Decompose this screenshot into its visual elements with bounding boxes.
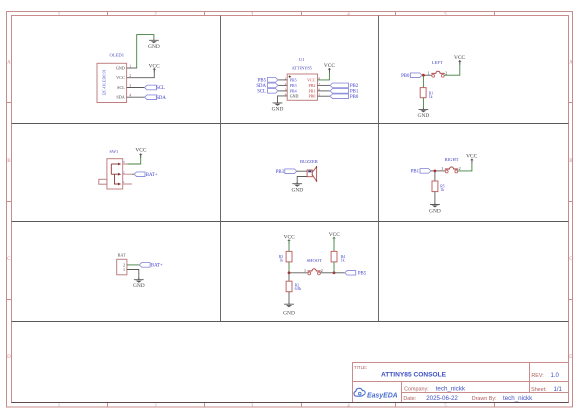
svg-text:TITLE:: TITLE: xyxy=(354,365,367,370)
svg-text:VCC: VCC xyxy=(324,63,335,69)
svg-text:1.0: 1.0 xyxy=(551,373,560,379)
power VCC at U1 xyxy=(328,68,331,73)
svg-text:PB2: PB2 xyxy=(308,83,315,88)
svg-text:1: 1 xyxy=(304,268,306,273)
wire R1 to GND xyxy=(422,98,424,110)
svg-text:2025-06-22: 2025-06-22 xyxy=(426,395,458,402)
svg-text:SCL: SCL xyxy=(117,85,125,90)
svg-text:GND: GND xyxy=(418,113,430,119)
svg-text:SW1: SW1 xyxy=(109,149,118,154)
net label SDA at U1 xyxy=(268,83,279,88)
wire junction to R1 xyxy=(422,75,424,87)
buzzer BUZZER xyxy=(300,159,319,181)
wire RIGHT switch to VCC xyxy=(458,159,472,171)
wire U1 pin7 to PB2 xyxy=(318,84,331,86)
power VCC at SW1 xyxy=(139,153,142,158)
svg-text:SHOOT: SHOOT xyxy=(307,258,323,263)
wire LEFT switch to VCC xyxy=(444,60,460,75)
svg-text:GND: GND xyxy=(290,94,299,99)
wire OLED1 pin1 to GND xyxy=(127,67,138,69)
svg-text:U1: U1 xyxy=(299,57,305,62)
SECTION DIVIDER LINES xyxy=(12,16,569,322)
ground GND at U1 xyxy=(273,101,283,106)
resistor R5 xyxy=(432,181,445,192)
wire U1 pin2 to SDA xyxy=(278,84,287,86)
wire VCC to R3 xyxy=(288,240,290,252)
power VCC at OLED xyxy=(153,68,156,73)
svg-text:Sheet:: Sheet: xyxy=(531,387,547,393)
net label PB2 xyxy=(330,83,349,88)
wire BAT pin2 to BAT+ xyxy=(127,264,139,266)
svg-text:SDA: SDA xyxy=(256,84,266,89)
svg-text:PB5: PB5 xyxy=(290,77,297,82)
net label BAT+ at BAT xyxy=(139,263,150,268)
resistor R3 xyxy=(279,251,292,262)
net label SCL at U1 xyxy=(268,89,279,94)
net label PB0 xyxy=(330,94,349,99)
svg-text:1k: 1k xyxy=(429,95,433,99)
wire PB0 to LEFT switch xyxy=(422,74,432,76)
svg-text:SDA: SDA xyxy=(156,96,166,101)
svg-text:OLED1: OLED1 xyxy=(110,52,125,57)
wire junction to R2 xyxy=(288,273,290,281)
wire BAT pin1 to GND xyxy=(127,270,139,280)
net label PB5 at U1 xyxy=(268,78,279,83)
wire U1 pin6 to PB1 xyxy=(318,90,331,92)
svg-text:SCL: SCL xyxy=(156,86,165,91)
svg-text:I2C-OLED0.91: I2C-OLED0.91 xyxy=(102,69,107,95)
svg-text:VCC: VCC xyxy=(329,232,340,238)
switch SW1 xyxy=(99,149,132,189)
svg-text:2: 2 xyxy=(445,70,447,75)
wire R4 to junction xyxy=(333,262,335,273)
wire R5 to GND xyxy=(434,192,436,205)
svg-text:BAT+: BAT+ xyxy=(151,264,163,269)
svg-text:A: A xyxy=(569,61,573,66)
svg-text:A: A xyxy=(7,61,11,66)
ground GND at BAT xyxy=(134,278,144,283)
wire R3 to junction xyxy=(288,262,290,273)
svg-text:1k: 1k xyxy=(341,259,345,263)
ground GND at OLED top xyxy=(149,39,159,44)
wire OLED1 pin2 to VCC xyxy=(127,70,155,78)
svg-text:EasyEDA: EasyEDA xyxy=(367,392,398,399)
svg-text:BUZZER: BUZZER xyxy=(300,159,319,164)
svg-text:D: D xyxy=(7,355,11,360)
svg-text:RIGHT: RIGHT xyxy=(445,157,459,162)
svg-text:GND: GND xyxy=(272,106,284,112)
svg-text:1k: 1k xyxy=(279,259,283,263)
EasyEDA logo xyxy=(354,388,398,399)
net label SDA xyxy=(145,95,157,100)
battery connector BAT xyxy=(117,253,127,275)
wire U1 pin3 to SCL xyxy=(278,90,287,92)
svg-text:SDA: SDA xyxy=(116,95,124,100)
ground GND at RIGHT xyxy=(430,203,440,208)
wire R2 to GND xyxy=(288,292,290,304)
svg-text:GND: GND xyxy=(283,311,295,317)
wire SW1 pin2 to BAT+ xyxy=(132,173,134,175)
svg-text:PB0: PB0 xyxy=(401,74,410,79)
svg-text:PB5: PB5 xyxy=(358,272,367,277)
pushbutton LEFT xyxy=(428,60,448,77)
wire U1 pin8 to VCC xyxy=(318,68,330,80)
junction at LEFT xyxy=(422,74,425,77)
svg-text:6.8k: 6.8k xyxy=(295,287,302,291)
wire PB3 to buzzer xyxy=(297,170,307,172)
svg-text:PB2: PB2 xyxy=(350,84,359,89)
resistor R4 xyxy=(331,251,345,262)
ground GND at SHOOT xyxy=(284,302,294,307)
resistor R1 xyxy=(420,88,433,99)
svg-text:BAT: BAT xyxy=(118,253,126,258)
wire SW1 pin3 to VCC xyxy=(127,154,140,164)
OLED display OLED1 xyxy=(97,52,131,102)
op-amp U1 xyxy=(285,57,321,100)
svg-text:PB0: PB0 xyxy=(308,94,315,99)
ground GND at BUZZER xyxy=(292,182,302,187)
svg-text:GND: GND xyxy=(133,283,145,289)
junction left at SHOOT xyxy=(288,271,291,274)
svg-text:1: 1 xyxy=(123,267,125,272)
svg-text:PB0: PB0 xyxy=(350,95,359,100)
svg-text:REV:: REV: xyxy=(531,373,543,379)
svg-text:SCL: SCL xyxy=(257,90,266,95)
svg-text:VCC: VCC xyxy=(116,75,125,80)
wire VCC to R4 xyxy=(333,237,335,251)
net label PB1 xyxy=(330,89,349,94)
svg-text:GND: GND xyxy=(148,44,160,50)
power VCC left at SHOOT xyxy=(287,239,290,244)
svg-text:VCC: VCC xyxy=(149,63,160,69)
svg-text:VCC: VCC xyxy=(454,55,465,61)
power VCC at RIGHT xyxy=(470,159,473,164)
svg-text:1/1: 1/1 xyxy=(554,387,563,393)
svg-text:PB3: PB3 xyxy=(276,170,285,175)
svg-text:tech_nickk: tech_nickk xyxy=(503,395,533,402)
svg-text:VCC: VCC xyxy=(466,154,477,160)
net label SCL xyxy=(145,85,157,90)
svg-text:1k: 1k xyxy=(440,188,444,192)
svg-text:BAT+: BAT+ xyxy=(146,173,158,178)
wire SHOOT switch to junction right xyxy=(320,272,334,274)
svg-text:Date:: Date: xyxy=(403,396,416,402)
junction right at SHOOT xyxy=(333,271,336,274)
wire U1 pin4 to GND xyxy=(278,96,288,103)
net label PB5 at SHOOT xyxy=(345,271,356,276)
svg-text:1: 1 xyxy=(441,166,443,171)
TITLE BLOCK xyxy=(353,363,569,403)
resistor R2 xyxy=(286,281,301,292)
power VCC at LEFT xyxy=(458,60,461,65)
wire junction to R5 xyxy=(434,171,436,181)
power VCC right at SHOOT xyxy=(332,237,335,242)
wire U1 pin1 to PB5 xyxy=(278,79,287,81)
wire U1 pin5 to PB0 xyxy=(318,95,331,97)
wire PB1 to RIGHT switch xyxy=(431,170,445,172)
net label BAT+ at SW1 xyxy=(134,172,145,177)
svg-text:GND: GND xyxy=(429,209,441,215)
wire junction to PB5 xyxy=(334,272,345,274)
svg-text:PB5: PB5 xyxy=(258,79,267,84)
svg-text:Company:: Company: xyxy=(404,386,429,392)
svg-text:LEFT: LEFT xyxy=(432,60,443,65)
svg-text:GND: GND xyxy=(116,66,125,71)
svg-text:ATTINY85 CONSOLE: ATTINY85 CONSOLE xyxy=(381,371,447,378)
ground GND at LEFT xyxy=(419,108,429,113)
svg-text:1: 1 xyxy=(428,70,430,75)
wire OLED1 pin3 to SCL xyxy=(127,87,145,89)
svg-text:2: 2 xyxy=(321,268,323,273)
wire junction to SHOOT switch xyxy=(289,272,308,274)
pushbutton RIGHT xyxy=(441,157,460,173)
svg-text:PB3: PB3 xyxy=(290,83,297,88)
svg-text:VCC: VCC xyxy=(135,148,146,154)
svg-text:PB1: PB1 xyxy=(411,170,420,175)
junction at RIGHT xyxy=(434,170,437,173)
pushbutton SHOOT xyxy=(304,258,323,275)
svg-text:VCC: VCC xyxy=(307,77,316,82)
wire buzzer to GND xyxy=(297,177,307,184)
svg-text:D: D xyxy=(569,355,573,360)
svg-text:tech_nickk: tech_nickk xyxy=(436,385,466,392)
svg-text:PB1: PB1 xyxy=(350,90,359,95)
wire OLED1 pin4 to SDA xyxy=(127,96,145,98)
svg-text:ATTINY85: ATTINY85 xyxy=(292,65,313,70)
svg-text:GND: GND xyxy=(291,187,303,193)
svg-text:Drawn By:: Drawn By: xyxy=(472,396,497,402)
